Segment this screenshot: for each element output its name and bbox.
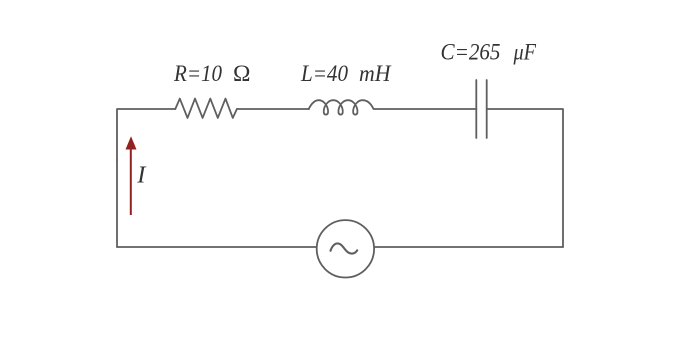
wire capacitor-to-right-corner [487,109,563,247]
svg-text:μF: μF [513,40,537,66]
resistor R=10 ohm [175,99,237,118]
wire source-to-bottom-right [374,246,563,248]
wire top-left segment [117,109,175,160]
wire resistor-to-inductor [237,108,309,110]
capacitor C=265 uF right plate [486,80,488,138]
svg-text:L=40: L=40 [300,61,348,87]
svg-text:R=10: R=10 [173,61,222,87]
ac source circle [317,220,374,277]
wire left-vertical-lower [116,160,118,247]
inductor L=40 mH [309,100,374,114]
svg-text:mH: mH [359,61,392,87]
svg-text:Ω: Ω [233,61,250,87]
svg-text:C=265: C=265 [441,40,501,66]
svg-text:I: I [136,162,147,189]
capacitor C=265 uF left plate [475,80,477,138]
wire inductor-to-capacitor [374,108,476,110]
wire bottom-left-to-source [117,246,317,248]
ac source sine symbol [331,243,358,253]
current arrow I [126,136,137,215]
